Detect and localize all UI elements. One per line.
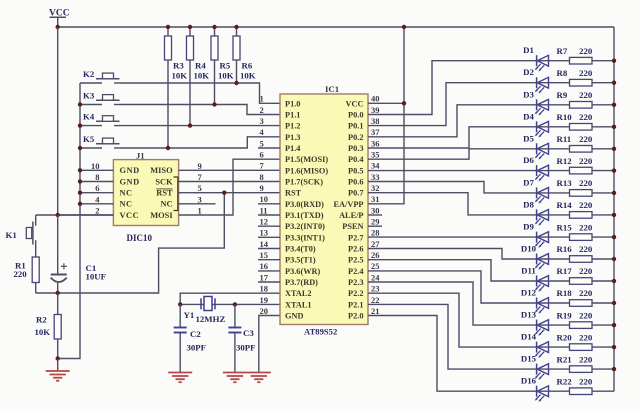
svg-text:220: 220: [579, 244, 593, 254]
svg-text:VCC: VCC: [120, 211, 140, 220]
led D4: [535, 121, 549, 137]
wire D3 from port pin: [368, 105, 537, 137]
wire D6 to R12: [537, 170, 570, 172]
wire D4 to R10: [537, 126, 570, 128]
svg-text:D10: D10: [521, 244, 537, 254]
svg-text:R5: R5: [220, 61, 231, 71]
svg-text:31: 31: [371, 194, 380, 204]
svg-text:C3: C3: [243, 328, 254, 338]
svg-text:D14: D14: [521, 332, 537, 342]
wire D12 to R18: [537, 302, 570, 304]
svg-text:P2.7: P2.7: [348, 233, 363, 242]
wire J1 pin 5: [179, 192, 280, 194]
wire J1 pin 8: [80, 181, 113, 183]
connector J1 box: [113, 160, 178, 226]
led D10: [535, 254, 549, 270]
svg-text:R13: R13: [557, 178, 573, 188]
wire J1 pin 10: [80, 169, 113, 171]
svg-text:5: 5: [260, 138, 264, 148]
resistor R4 10K body: [189, 27, 191, 36]
power VCC symbol: [49, 9, 70, 28]
svg-text:D7: D7: [523, 177, 534, 187]
svg-text:10: 10: [260, 194, 269, 204]
wire D9 from port pin: [368, 236, 537, 238]
wire K5 to P1.3 pin4: [120, 137, 280, 148]
svg-text:1: 1: [260, 94, 264, 104]
connector J1 bracket mark: [174, 177, 178, 211]
wire EA/VPP pin31: [368, 27, 404, 204]
junction bus-R13: [612, 191, 616, 195]
ground C2: [168, 373, 192, 383]
junction rail-VCC: [56, 25, 60, 29]
wire D7 to R13: [537, 192, 570, 194]
wire J1 pin 7: [179, 181, 280, 183]
resistor R6 10K body: [236, 27, 238, 36]
junction reset-RST wire: [222, 191, 226, 195]
svg-text:37: 37: [371, 127, 380, 137]
svg-text:5: 5: [198, 183, 202, 193]
svg-text:P3.2(INT0): P3.2(INT0): [285, 222, 325, 231]
svg-text:6: 6: [95, 183, 99, 193]
svg-text:AT89S52: AT89S52: [304, 327, 337, 337]
switch K2: [80, 73, 120, 83]
junction rail-VCC vertical: [402, 25, 406, 29]
svg-text:P3.7(RD): P3.7(RD): [285, 278, 318, 287]
svg-text:K3: K3: [83, 91, 95, 101]
svg-text:P1.5(MOSI): P1.5(MOSI): [285, 155, 328, 164]
resistor R9 body: [570, 102, 593, 109]
svg-text:D16: D16: [521, 376, 537, 386]
junction bus-R12: [612, 168, 616, 172]
junction bus-R16: [612, 257, 616, 261]
wire R20 to bus: [592, 346, 614, 348]
wire pin29 stub: [368, 225, 382, 227]
junction bus-R21: [612, 367, 616, 371]
wire R16 to bus: [592, 258, 614, 260]
wire pin12 stub: [258, 225, 280, 227]
junction K4-R4: [188, 123, 192, 127]
wire R11 to bus: [592, 148, 614, 150]
junction bus-R11: [612, 147, 616, 151]
svg-text:P3.0(RXD): P3.0(RXD): [285, 200, 324, 209]
wire J1 pin 2: [58, 214, 114, 216]
wire D9 to R15: [537, 236, 570, 238]
junction bus-J1 pin 4: [78, 202, 82, 206]
wire D16 from port pin: [368, 316, 537, 392]
wire K4 to P1.2 pin3: [120, 125, 280, 127]
wire D10 to R16: [537, 258, 570, 260]
svg-text:D13: D13: [521, 310, 537, 320]
wire D15 to R21: [537, 368, 570, 370]
junction bus-R7: [612, 59, 616, 63]
svg-text:P0.3: P0.3: [348, 144, 363, 153]
junction XTAL2-C2: [178, 302, 182, 306]
svg-text:P3.6(WR): P3.6(WR): [285, 267, 320, 276]
svg-text:2: 2: [260, 105, 264, 115]
led D5: [535, 143, 549, 159]
switch K1: [26, 215, 35, 257]
svg-text:NC: NC: [160, 200, 172, 209]
led D11: [535, 276, 549, 292]
svg-text:GND: GND: [120, 166, 140, 175]
svg-text:D5: D5: [523, 133, 534, 143]
svg-text:ALE/P: ALE/P: [339, 211, 363, 220]
svg-text:10K: 10K: [194, 71, 210, 81]
wire D13 to R19: [537, 324, 570, 326]
svg-text:P3.4(T0): P3.4(T0): [285, 245, 316, 254]
led D15: [535, 364, 549, 380]
svg-text:2: 2: [95, 206, 99, 216]
wire pin11 stub: [258, 214, 280, 216]
wire GND pin20: [259, 316, 280, 373]
capacitor C3: [228, 304, 241, 372]
svg-text:EA/VPP: EA/VPP: [334, 200, 364, 209]
junction bus-J1 pin 8: [78, 179, 82, 183]
svg-text:P2.4: P2.4: [348, 267, 363, 276]
svg-text:220: 220: [579, 178, 593, 188]
junction reset node-C1: [56, 291, 60, 295]
junction VCC-C1 top: [56, 213, 60, 217]
led D1: [535, 55, 549, 71]
junction bus-J1 pin 6: [78, 191, 82, 195]
wire R18 to bus: [592, 302, 614, 304]
switch K5: [80, 138, 120, 148]
svg-text:IC1: IC1: [325, 84, 339, 94]
ic U1 IC1 box: [280, 94, 368, 325]
led D12: [535, 298, 549, 314]
junction bus-R9: [612, 103, 616, 107]
svg-text:220: 220: [579, 376, 593, 386]
ground left: [46, 371, 70, 381]
svg-text:P3.5(T1): P3.5(T1): [285, 256, 316, 265]
wire R13 to bus: [592, 192, 614, 194]
svg-text:D15: D15: [521, 354, 537, 364]
wire R8 to bus: [592, 82, 614, 84]
svg-text:R2: R2: [36, 315, 47, 325]
junction bus-R19: [612, 323, 616, 327]
wire J1 pin 1: [179, 159, 280, 215]
switch K3: [80, 95, 120, 105]
wire pin17 stub: [258, 281, 280, 283]
wire ground stub: [57, 359, 59, 372]
led D8: [535, 209, 549, 225]
svg-text:8: 8: [260, 172, 264, 182]
svg-text:220: 220: [579, 266, 593, 276]
junction bus-J1 pin 10: [78, 168, 82, 172]
capacitor C1: [51, 215, 67, 293]
ground MCU: [247, 373, 271, 383]
svg-text:P1.6(MISO): P1.6(MISO): [285, 166, 328, 175]
svg-text:P2.3: P2.3: [348, 278, 363, 287]
svg-text:220: 220: [579, 310, 593, 320]
wire pin15 stub: [258, 259, 280, 261]
wire D14 to R20: [537, 346, 570, 348]
svg-text:D2: D2: [523, 67, 534, 77]
svg-text:36: 36: [371, 138, 380, 148]
svg-text:RST: RST: [285, 189, 302, 198]
junction bus-R17: [612, 279, 616, 283]
resistor R8 body: [570, 79, 593, 86]
wire switch ground bus: [58, 83, 80, 359]
svg-text:220: 220: [579, 288, 593, 298]
svg-text:D8: D8: [523, 199, 534, 209]
svg-text:30PF: 30PF: [187, 343, 207, 353]
resistor R13 body: [570, 190, 593, 197]
svg-text:220: 220: [579, 200, 593, 210]
svg-text:D11: D11: [521, 266, 536, 276]
svg-text:35: 35: [371, 150, 380, 160]
svg-text:R9: R9: [557, 90, 568, 100]
wire R1 to reset node: [35, 283, 37, 294]
wire VCC to J1 and K1 branch: [36, 214, 114, 216]
svg-text:J1: J1: [136, 150, 145, 160]
crystal Y1: [201, 297, 215, 311]
resistor R14 body: [570, 212, 593, 219]
svg-text:K4: K4: [83, 112, 95, 122]
led D6: [535, 165, 549, 181]
svg-text:220: 220: [579, 46, 593, 56]
svg-text:NC: NC: [120, 200, 133, 209]
svg-text:16: 16: [260, 261, 269, 271]
wire D1 to R7: [537, 60, 570, 62]
wire D15 from port pin: [368, 304, 537, 369]
wire XTAL2 pin18: [180, 293, 280, 304]
wire XTAL1 pin19: [180, 303, 280, 305]
svg-text:R8: R8: [557, 68, 568, 78]
junction rail-R3: [166, 25, 170, 29]
resistor R3 10K body: [167, 27, 169, 36]
wire J1 pin 3: [179, 203, 216, 205]
wire pin10 stub: [258, 203, 280, 205]
wire R19 to bus: [592, 324, 614, 326]
resistor R16 body: [570, 256, 593, 263]
svg-text:R15: R15: [557, 222, 573, 232]
junction bus-R10: [612, 125, 616, 129]
svg-text:18: 18: [260, 284, 269, 294]
svg-text:P0.1: P0.1: [348, 122, 363, 131]
svg-text:D4: D4: [523, 111, 534, 121]
svg-text:MISO: MISO: [150, 166, 173, 175]
resistor R1 body: [32, 257, 39, 283]
resistor R11 body: [570, 146, 593, 153]
svg-text:P0.4: P0.4: [348, 155, 363, 164]
svg-text:DIC10: DIC10: [127, 233, 153, 243]
svg-text:8: 8: [95, 172, 99, 182]
wire R14 to bus: [592, 214, 614, 216]
resistor R18 body: [570, 300, 593, 307]
svg-text:220: 220: [579, 134, 593, 144]
svg-text:R11: R11: [557, 134, 572, 144]
led D7: [535, 187, 549, 203]
svg-text:R4: R4: [195, 61, 206, 71]
wire D5 to R11: [537, 148, 570, 150]
junction K2-R6: [234, 81, 238, 85]
svg-text:25: 25: [371, 261, 380, 271]
svg-text:R16: R16: [557, 244, 573, 254]
svg-text:R10: R10: [557, 112, 573, 122]
svg-text:220: 220: [579, 112, 593, 122]
svg-text:NC: NC: [120, 189, 133, 198]
wire VCC right bus: [613, 27, 615, 391]
wire pin30 stub: [368, 214, 382, 216]
svg-text:R14: R14: [557, 200, 573, 210]
svg-text:P1.3: P1.3: [285, 133, 300, 142]
svg-text:K1: K1: [6, 230, 17, 240]
wire R21 to bus: [592, 368, 614, 370]
wire R17 to bus: [592, 280, 614, 282]
svg-text:220: 220: [579, 90, 593, 100]
svg-text:30PF: 30PF: [236, 343, 256, 353]
junction bus-R20: [612, 345, 616, 349]
svg-text:220: 220: [579, 332, 593, 342]
svg-text:P0.6: P0.6: [348, 178, 363, 187]
wire D2 from port pin: [368, 83, 537, 126]
ground C3: [223, 373, 247, 383]
wire J1 pin 6: [80, 192, 113, 194]
junction rail-R6: [234, 25, 238, 29]
wire R15 to bus: [592, 236, 614, 238]
svg-text:GND: GND: [285, 312, 303, 321]
svg-text:D3: D3: [523, 89, 534, 99]
wire pin13 stub: [258, 236, 280, 238]
svg-text:P3.1(TXD): P3.1(TXD): [285, 211, 324, 220]
svg-text:R12: R12: [557, 156, 573, 166]
svg-text:K5: K5: [83, 134, 95, 144]
svg-text:220: 220: [579, 68, 593, 78]
svg-text:23: 23: [371, 284, 380, 294]
svg-text:10: 10: [91, 161, 100, 171]
led D3: [535, 99, 549, 115]
svg-text:21: 21: [371, 306, 380, 316]
svg-text:40: 40: [371, 94, 380, 104]
svg-text:VCC: VCC: [346, 99, 364, 108]
svg-text:P1.1: P1.1: [285, 111, 300, 120]
junction bus-R18: [612, 301, 616, 305]
svg-text:P0.2: P0.2: [348, 133, 363, 142]
led D13: [535, 320, 549, 336]
svg-text:9: 9: [260, 183, 264, 193]
junction ground node: [56, 356, 60, 360]
svg-text:R22: R22: [557, 376, 573, 386]
svg-text:22: 22: [371, 295, 380, 305]
wire D8 from port pin: [368, 193, 537, 215]
svg-text:R18: R18: [557, 288, 573, 298]
junction bus-R14: [612, 213, 616, 217]
wire R12 to bus: [592, 170, 614, 172]
junction bus-K4: [78, 123, 82, 127]
resistor R5 10K body: [214, 27, 216, 36]
wire D10 from port pin: [368, 249, 537, 260]
svg-text:15: 15: [260, 250, 269, 260]
wire pin5 stub: [258, 147, 280, 149]
svg-text:220: 220: [579, 222, 593, 232]
svg-text:R3: R3: [173, 61, 184, 71]
resistor R2 body: [54, 315, 61, 340]
wire D5 from port pin: [368, 149, 537, 159]
svg-text:14: 14: [260, 239, 269, 249]
junction K5-R3: [166, 146, 170, 150]
junction bus-R8: [612, 81, 616, 85]
wire K2 to P1.0 pin1: [120, 83, 280, 103]
svg-text:P0.7: P0.7: [348, 189, 363, 198]
svg-text:30: 30: [371, 205, 380, 215]
resistor R7 body: [570, 57, 593, 64]
resistor R20 body: [570, 344, 593, 351]
svg-text:D1: D1: [523, 45, 534, 55]
svg-text:220: 220: [579, 354, 593, 364]
junction XTAL1-C3: [233, 302, 237, 306]
wire R7 to bus: [592, 60, 614, 62]
junction VCC vertical-pin40: [402, 101, 406, 105]
svg-text:R19: R19: [557, 310, 573, 320]
svg-text:13: 13: [260, 228, 269, 238]
junction rail-R5: [212, 25, 216, 29]
led D14: [535, 342, 549, 358]
resistor R21 body: [570, 366, 593, 373]
wire VCC left rail: [57, 27, 59, 215]
svg-text:P2.0: P2.0: [348, 312, 363, 321]
svg-text:29: 29: [371, 217, 380, 227]
svg-text:9: 9: [198, 161, 202, 171]
wire D8 to R14: [537, 214, 570, 216]
wire pin16 stub: [258, 270, 280, 272]
svg-text:12: 12: [260, 217, 269, 227]
svg-text:17: 17: [260, 272, 269, 282]
led D9: [535, 232, 549, 248]
wire J1 pin 4: [80, 203, 113, 205]
junction bus-K3: [78, 102, 82, 106]
svg-text:P0.0: P0.0: [348, 111, 363, 120]
wire D7 from port pin: [368, 182, 537, 193]
svg-text:12MHZ: 12MHZ: [196, 314, 226, 324]
svg-text:1: 1: [198, 206, 202, 216]
svg-text:10K: 10K: [218, 71, 234, 81]
junction bus-R15: [612, 235, 616, 239]
wire D14 from port pin: [368, 293, 537, 347]
svg-text:GND: GND: [120, 177, 140, 186]
node VCC top rail: [58, 26, 614, 28]
svg-text:D12: D12: [521, 288, 537, 298]
wire pin14 stub: [258, 248, 280, 250]
svg-text:P2.1: P2.1: [348, 300, 363, 309]
resistor R19 body: [570, 322, 593, 329]
junction K3-R5: [212, 102, 216, 106]
wire D13 from port pin: [368, 282, 537, 325]
capacitor C2: [174, 304, 187, 372]
svg-text:10K: 10K: [172, 71, 188, 81]
svg-text:P0.5: P0.5: [348, 166, 363, 175]
svg-text:20: 20: [260, 306, 269, 316]
wire D3 to R9: [537, 104, 570, 106]
resistor R10 body: [570, 124, 593, 131]
svg-text:XTAL2: XTAL2: [285, 289, 312, 298]
svg-text:38: 38: [371, 116, 380, 126]
resistor R15 body: [570, 234, 593, 241]
svg-text:R6: R6: [242, 61, 253, 71]
svg-text:39: 39: [371, 105, 380, 115]
svg-text:P1.2: P1.2: [285, 122, 300, 131]
wire R10 to bus: [592, 126, 614, 128]
svg-text:34: 34: [371, 161, 380, 171]
wire R9 to bus: [592, 104, 614, 106]
svg-text:P2.5: P2.5: [348, 256, 363, 265]
svg-text:D9: D9: [523, 222, 534, 232]
svg-text:C2: C2: [190, 329, 201, 339]
wire R2 leads: [57, 293, 59, 315]
svg-text:R7: R7: [557, 46, 568, 56]
svg-text:26: 26: [371, 250, 380, 260]
svg-text:R17: R17: [557, 266, 573, 276]
